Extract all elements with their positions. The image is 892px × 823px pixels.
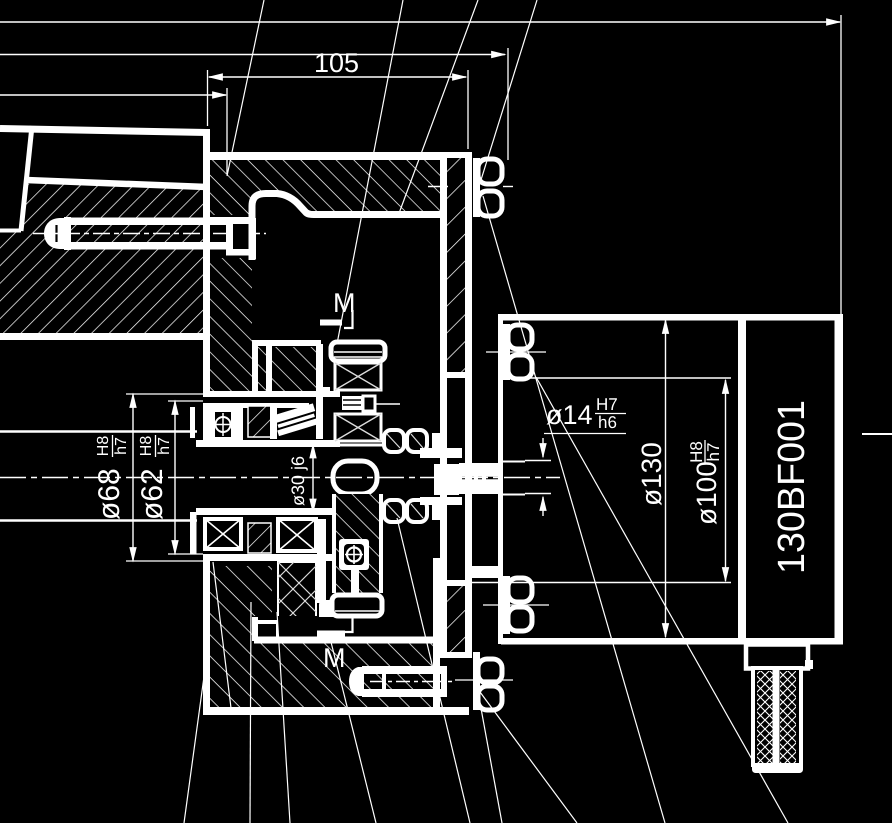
svg-text:H7: H7	[596, 395, 618, 414]
gear bottom cap	[332, 595, 382, 616]
svg-text:h6: h6	[598, 413, 617, 432]
motor shaft extension stubs (Ø14)	[525, 460, 551, 462]
adapter right face / motor spigot	[465, 152, 472, 658]
upper spacer ring (hatched)	[248, 406, 271, 437]
adapter hatched band lower	[447, 585, 465, 652]
svg-text:h7: h7	[113, 437, 130, 455]
Ø68 dimension	[132, 394, 134, 561]
adapter hole top edge	[440, 372, 472, 378]
gear hub left face bar (upper)	[316, 344, 323, 439]
gear retaining screw (end view)	[339, 539, 369, 570]
bolt centerline	[33, 233, 266, 235]
connector housing	[746, 645, 808, 669]
bolt B4 (adapter-flange, bottom)	[455, 652, 513, 710]
leader to cavity wall	[398, 0, 478, 216]
right edge centerline tick	[862, 433, 892, 435]
motor spigot extension lines (Ø100)	[503, 377, 731, 379]
motor front face	[498, 314, 503, 644]
coupling sleeve walls	[420, 448, 462, 458]
leader from bolt B4 down-right	[480, 692, 577, 823]
bolt dome head	[44, 218, 66, 249]
lower bearing (X square)	[205, 519, 241, 549]
gear lower rim (X box)	[335, 414, 381, 441]
flange left hatched band	[210, 258, 252, 393]
svg-text:ø100: ø100	[691, 461, 722, 525]
pocket void	[252, 616, 345, 637]
leader inside flange bottom block	[213, 562, 231, 708]
adapter left face	[440, 152, 447, 658]
counterbore right wall	[249, 200, 256, 259]
svg-text:H8: H8	[138, 436, 155, 457]
pocket left wall	[252, 617, 258, 641]
dimension line to counterbore	[0, 94, 226, 96]
svg-text:h7: h7	[156, 437, 173, 455]
slanted lock washer	[273, 403, 319, 436]
motor shaft end in coupling	[434, 464, 459, 495]
leader from bolt B2 to lower-right balloon	[536, 377, 788, 823]
flange top hatched band	[210, 159, 443, 215]
shaft bottom line	[196, 508, 340, 515]
bolt nut body	[233, 224, 249, 251]
svg-text:h7: h7	[704, 443, 723, 462]
fixing bolt (left, horizontal)	[33, 200, 266, 259]
lower retaining block (cross hatched)	[278, 562, 316, 620]
gear keyway block	[363, 396, 375, 411]
counterbore hole top wall	[210, 217, 249, 224]
gear retaining screw shank	[351, 569, 359, 596]
leader to bolt B1	[476, 0, 537, 196]
bore bottom wall	[203, 554, 340, 561]
lower lock ring (X square)	[278, 519, 316, 551]
Ø14 measure arrows	[542, 438, 544, 457]
gear upper rim (X box)	[335, 363, 381, 390]
gear key	[342, 396, 362, 410]
dimension line to motor face	[0, 54, 505, 56]
machine bore journal lines	[0, 430, 197, 433]
pocket floor line	[254, 637, 436, 644]
leader to gear	[337, 0, 403, 344]
svg-text:105: 105	[314, 48, 359, 78]
flange hub hatched block	[272, 347, 318, 392]
bearing top seat line (Ø62)	[203, 403, 309, 408]
extension line counterbore	[226, 88, 228, 174]
gear top cap	[331, 342, 385, 361]
flange bell cavity outline curve	[252, 194, 320, 261]
lower spacer (hatched)	[248, 523, 271, 553]
motor bottom edge	[501, 638, 843, 645]
bolt head slot	[55, 225, 57, 242]
svg-text:ø14: ø14	[546, 400, 593, 430]
main axis centerline	[0, 477, 560, 479]
extension line flange face	[207, 70, 209, 126]
coupling upper lobes	[384, 430, 404, 452]
dimension 105	[209, 76, 466, 78]
flange cavity top wall	[315, 211, 443, 218]
adapter bottom cap	[440, 652, 472, 658]
coupling lower lobes	[384, 500, 404, 522]
bolt B1 (adapter-flange, top)	[428, 158, 513, 217]
motor right edge	[835, 314, 844, 644]
bore top wall (Ø68 seat)	[203, 391, 340, 397]
gear hub (hatched, below axis)	[334, 494, 381, 593]
leader from retaining ring down	[277, 612, 290, 823]
bolt B2 (motor-adapter, top)	[486, 324, 546, 380]
bolt B3 (motor-adapter, bottom)	[483, 576, 549, 634]
flange hub face lines	[252, 340, 321, 346]
svg-text:M: M	[323, 643, 346, 673]
leader from bolt B1 to bottom balloon	[483, 196, 665, 823]
motor shaft inside motor	[503, 461, 525, 463]
flange bell cavity bump (black under curve)	[252, 193, 318, 218]
svg-text:130BF001: 130BF001	[771, 400, 813, 574]
svg-text:ø130: ø130	[636, 442, 667, 506]
adapter hole bottom edge	[440, 580, 472, 586]
motor spigot bottom shoulder	[472, 566, 500, 578]
leader from bearing down	[250, 602, 251, 823]
machine housing slanted edge	[21, 126, 32, 231]
motor top edge	[501, 314, 843, 321]
cable end cap	[752, 764, 803, 774]
gear hub left face bar (lower)	[317, 519, 326, 603]
upper bearing (ball)	[205, 410, 241, 439]
leader from bolt B4 down-left	[478, 692, 502, 823]
bolt shank top rail	[70, 218, 228, 226]
flange top edge	[203, 152, 448, 160]
machine housing bottom edge	[0, 333, 207, 340]
leader from coupling to bottom balloon	[397, 518, 470, 823]
shaft keyway section (stadium)	[333, 461, 377, 494]
Ø62 dimension	[174, 401, 176, 554]
bolt washer	[64, 217, 71, 250]
bolt nut left wall	[226, 217, 233, 255]
machine housing lower-left edge	[0, 229, 21, 233]
counterbore bottom wall	[226, 249, 256, 256]
pocket step line	[254, 620, 278, 624]
machine housing mid shelf edge	[26, 180, 207, 187]
flange bottom-right edge	[433, 558, 440, 710]
adapter hatched band upper	[447, 158, 465, 372]
Ø130 dimension	[665, 320, 667, 637]
motor shaft	[459, 463, 499, 494]
svg-text:ø30 j6: ø30 j6	[288, 456, 308, 506]
machine housing hatched wall (cut section)	[0, 184, 207, 333]
machine housing top edge	[0, 129, 207, 133]
extension line motor face	[507, 48, 509, 160]
svg-text:H8: H8	[95, 436, 112, 457]
gear hub bottom-left lug	[319, 600, 342, 617]
flange bottom hatched block	[210, 566, 272, 644]
extension line adapter face	[467, 70, 469, 149]
flange left face	[203, 129, 210, 394]
bolt shank bottom rail	[70, 242, 228, 250]
flange bottom edge	[203, 707, 469, 715]
extension line motor rear	[840, 15, 842, 314]
svg-text:ø68: ø68	[93, 468, 126, 520]
adapter top cap	[440, 152, 472, 158]
cable (braided, two columns)	[753, 668, 801, 765]
leader from section mark M down	[330, 638, 376, 823]
bore seat blocks	[190, 407, 195, 438]
leader to bottom-left balloon	[184, 640, 209, 823]
motor rear divider	[738, 314, 746, 644]
shaft top line	[196, 440, 340, 447]
Ø100 dimension	[725, 380, 727, 581]
svg-text:ø62: ø62	[136, 468, 169, 520]
coupling hub end wall	[432, 433, 440, 453]
leader to flange housing	[227, 0, 264, 176]
gear bore step line	[333, 444, 383, 447]
overall dimension line (to motor rear)	[0, 21, 840, 23]
